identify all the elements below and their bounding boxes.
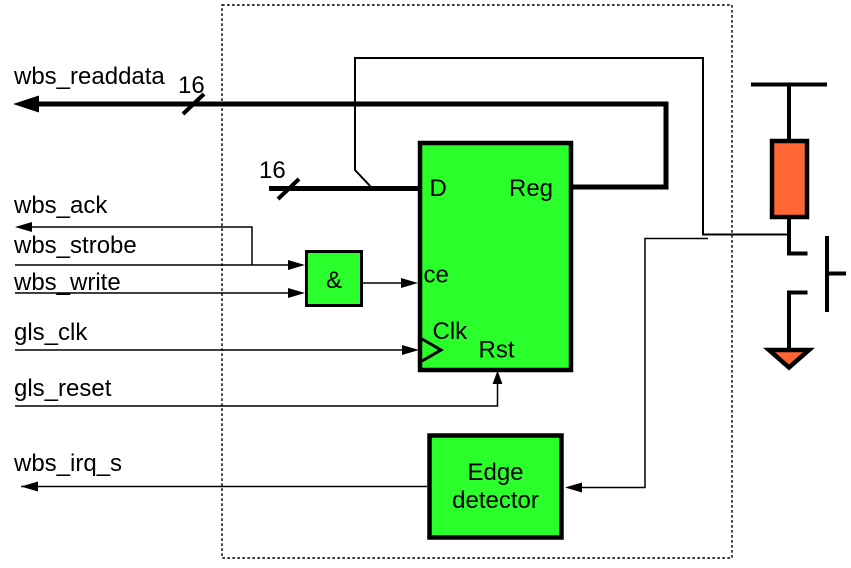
resistor R1: [772, 141, 807, 217]
svg-text:D: D: [430, 175, 447, 202]
wire wbs_write: [15, 292, 290, 294]
transistor Q1 source stub: [789, 293, 808, 350]
arrowhead wbs_strobe into AND gate: [288, 260, 305, 270]
svg-text:Rst: Rst: [479, 337, 515, 364]
svg-text:wbs_irq_s: wbs_irq_s: [13, 450, 122, 477]
arrowhead into edge detector (left): [565, 483, 582, 493]
ground symbol: [769, 350, 809, 368]
arrowhead wbs_write into AND gate: [288, 288, 305, 298]
svg-text:wbs_readdata: wbs_readdata: [13, 63, 165, 90]
svg-text:16: 16: [259, 157, 286, 184]
wire wbs_readdata bus (thick): [34, 104, 666, 187]
AND gate U2: [307, 252, 362, 306]
wire resistor to drain node: [789, 219, 808, 254]
svg-text:gls_reset: gls_reset: [14, 375, 112, 402]
arrowhead wbs_irq_s (left): [21, 482, 38, 492]
svg-text:Edge: Edge: [467, 459, 523, 486]
bus width slash (D input): [278, 179, 299, 199]
svg-text:wbs_strobe: wbs_strobe: [13, 232, 137, 259]
svg-text:gls_clk: gls_clk: [14, 319, 88, 346]
svg-text:wbs_write: wbs_write: [13, 269, 121, 296]
wire wbs_ack: [30, 227, 252, 265]
power rail (top T): [751, 85, 827, 140]
wire edge-detector tap: [581, 239, 708, 488]
wire D input bus (thick): [269, 186, 418, 191]
module boundary (dashed box): [222, 5, 732, 558]
wire wbs_irq_s: [21, 486, 427, 488]
wire wbs_strobe: [15, 264, 290, 266]
register U1: [420, 143, 571, 370]
wire gls_reset: [15, 383, 498, 406]
edge detector U3: [430, 436, 562, 538]
svg-text:Clk: Clk: [433, 318, 469, 345]
svg-text:wbs_ack: wbs_ack: [13, 192, 108, 219]
wire AND output to ce: [363, 282, 402, 284]
wire gls_clk: [15, 349, 404, 351]
arrowhead ce input: [401, 278, 418, 288]
svg-text:&: &: [326, 267, 342, 294]
transistor Q1 gate lead: [829, 272, 846, 276]
svg-text:Reg: Reg: [509, 175, 553, 202]
arrowhead wbs_ack (left): [15, 222, 32, 232]
clock chevron on register: [422, 339, 441, 361]
svg-text:16: 16: [178, 72, 205, 99]
arrowhead wbs_readdata (left): [13, 96, 39, 113]
transistor Q1 gate bar: [825, 236, 829, 312]
arrowhead gls_reset into Rst (up): [493, 371, 503, 385]
arrowhead gls_clk into register: [402, 345, 419, 355]
bus width slash (wbs_readdata): [183, 94, 204, 114]
svg-text:ce: ce: [424, 262, 449, 289]
svg-text:detector: detector: [452, 487, 539, 514]
wire feedback Q-to-D / pull-up node: [355, 58, 788, 235]
